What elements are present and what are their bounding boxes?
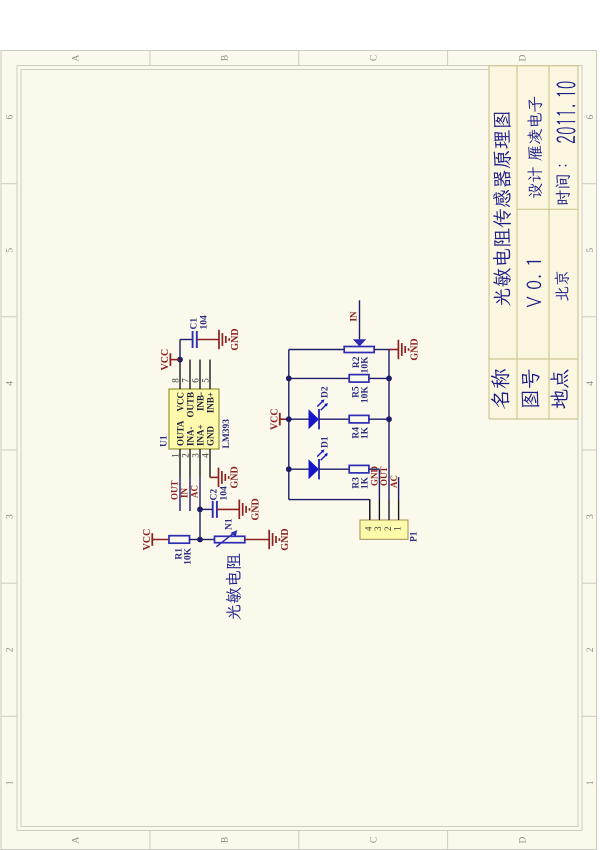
junction rail/D1: [286, 466, 292, 472]
ground (U1 pin4): [210, 466, 241, 488]
R2 wiper arrow: [353, 339, 366, 346]
wire pin8 to C1: [180, 339, 193, 359]
svg-text:VCC: VCC: [160, 348, 171, 370]
U1 pin names: [175, 392, 215, 446]
wire R4 to OUT row: [369, 418, 389, 420]
designer 设计 雁凌电子: [527, 96, 542, 197]
wire R3 to GND row: [369, 468, 380, 470]
svg-text:D1: D1: [321, 436, 331, 448]
title block: 图号 row: [522, 369, 540, 407]
grid row letters: [72, 54, 529, 843]
junction rail/R5: [286, 375, 292, 381]
location 北京: [555, 271, 569, 300]
title block table: [489, 65, 578, 419]
svg-text:7: 7: [181, 377, 191, 382]
wire R2 to OUT row: [374, 348, 389, 350]
svg-text:4: 4: [6, 380, 16, 385]
svg-text:GND: GND: [409, 338, 420, 360]
svg-text:5: 5: [201, 377, 211, 382]
svg-text:1K: 1K: [361, 426, 371, 439]
title block: 地点 row: [550, 369, 568, 408]
wire anode D1: [289, 468, 309, 470]
wire AC to C2: [200, 508, 213, 510]
grid column ticks: [1, 183, 597, 716]
label 光敏电阻: [226, 553, 241, 619]
U1 left pins 1-4: [180, 449, 210, 477]
LED D2: [309, 399, 328, 429]
svg-text:4: 4: [201, 452, 211, 457]
svg-text:D2: D2: [321, 386, 331, 398]
svg-text:GND: GND: [280, 528, 291, 550]
svg-text:3: 3: [6, 513, 16, 518]
ground (N1): [245, 528, 291, 550]
svg-text:1: 1: [171, 453, 181, 458]
svg-text:6: 6: [6, 114, 16, 119]
svg-text:GND: GND: [230, 466, 241, 488]
svg-text:INB-: INB-: [195, 392, 205, 411]
junction pin8/VCC: [177, 356, 183, 362]
junction rail/D2: [286, 416, 292, 422]
svg-text:4: 4: [364, 525, 374, 530]
resistor R1: [169, 535, 190, 543]
svg-text:GND: GND: [250, 498, 261, 520]
VCC rail wire: [288, 349, 290, 499]
junction OUT/R4: [386, 416, 392, 422]
P1 pins: [370, 500, 399, 520]
time 时间：2011.10: [556, 81, 576, 204]
svg-text:10K: 10K: [361, 355, 371, 373]
resistor R4: [349, 415, 369, 423]
wire anode D2: [289, 418, 309, 420]
title: 光敏电阻传感器原理图: [493, 112, 511, 306]
wire pin1 OUT: [179, 477, 181, 511]
svg-text:OUT: OUT: [170, 480, 180, 500]
U1 right pins 8,7,6,5: [180, 359, 210, 388]
svg-text:GND: GND: [370, 465, 380, 486]
grid column numbers: [6, 114, 596, 785]
svg-text:IN: IN: [180, 487, 190, 498]
svg-text:GND: GND: [205, 425, 215, 446]
svg-text:OUT: OUT: [379, 466, 389, 486]
ground (C1): [197, 328, 241, 350]
svg-text:OUTA: OUTA: [175, 420, 185, 446]
svg-text:1: 1: [392, 526, 402, 531]
svg-text:C2: C2: [210, 488, 220, 500]
svg-text:5: 5: [6, 247, 16, 252]
junction R1/N1/AC node: [197, 536, 203, 542]
svg-text:B: B: [221, 836, 231, 842]
wire pin2 IN: [189, 477, 191, 511]
svg-text:2: 2: [586, 647, 596, 652]
svg-text:U1: U1: [160, 435, 170, 447]
GND row wire to P1 pin3: [378, 469, 380, 500]
capacitor C1: [193, 331, 197, 348]
svg-text:C: C: [369, 54, 379, 60]
OUT row wire: [388, 349, 390, 500]
svg-text:104: 104: [200, 315, 210, 330]
op-amp U1 LM393 body: [169, 389, 219, 449]
svg-text:C1: C1: [190, 317, 200, 329]
svg-text:LM393: LM393: [222, 418, 232, 448]
wire rail to R5: [289, 377, 349, 379]
svg-text:VCC: VCC: [270, 408, 281, 430]
svg-text:OUTB: OUTB: [185, 392, 195, 418]
wire R1 to node: [190, 538, 201, 540]
svg-text:A: A: [72, 836, 82, 843]
wire pin3 AC: [199, 477, 201, 539]
svg-text:5: 5: [586, 247, 596, 252]
wire cathode D2: [319, 418, 349, 420]
ground (R2): [389, 338, 420, 360]
svg-text:6: 6: [191, 377, 201, 382]
wire cathode D1: [319, 468, 349, 470]
resistor R5: [349, 374, 369, 382]
svg-text:INA+: INA+: [195, 424, 205, 446]
U1 pin numbers: [171, 377, 211, 457]
svg-text:AC: AC: [389, 475, 399, 488]
svg-text:2: 2: [6, 647, 16, 652]
svg-text:3: 3: [373, 525, 383, 530]
resistor R3: [349, 465, 369, 473]
svg-text:1: 1: [586, 780, 596, 785]
svg-text:B: B: [221, 54, 231, 60]
power port VCC (U1 pin8): [160, 348, 180, 370]
ground (C2): [217, 498, 261, 520]
svg-text:4: 4: [586, 380, 596, 385]
svg-text:P1: P1: [410, 531, 420, 542]
svg-text:8: 8: [171, 377, 181, 382]
version V 0. 1: [527, 260, 542, 307]
LED D1: [309, 449, 328, 479]
IN wire to wiper: [359, 300, 361, 339]
potentiometer R2 body: [344, 346, 374, 352]
svg-text:3: 3: [586, 513, 596, 518]
svg-text:6: 6: [586, 114, 596, 119]
svg-text:10K: 10K: [361, 385, 371, 403]
P1 pin numbers: [364, 525, 403, 530]
wire R5 to OUT row: [369, 377, 389, 379]
svg-text:10K: 10K: [183, 547, 193, 565]
svg-text:D: D: [518, 54, 528, 61]
photoresistor N1: [215, 530, 245, 547]
svg-text:3: 3: [191, 452, 201, 457]
svg-text:VCC: VCC: [175, 392, 185, 412]
AC row wire: [398, 477, 400, 500]
svg-text:104: 104: [220, 486, 230, 501]
power port VCC (LED rail): [270, 408, 289, 430]
svg-text:D: D: [518, 836, 528, 843]
svg-text:2: 2: [181, 453, 191, 458]
title block: 名称 row: [491, 369, 510, 409]
svg-text:GND: GND: [230, 328, 241, 350]
svg-text:INA-: INA-: [185, 426, 195, 446]
capacitor C2: [213, 500, 217, 517]
svg-text:2: 2: [383, 526, 393, 531]
wire rail to R2: [289, 348, 344, 350]
svg-text:AC: AC: [190, 485, 200, 498]
svg-text:VCC: VCC: [142, 528, 153, 550]
svg-text:1: 1: [6, 780, 16, 785]
svg-text:INB+: INB+: [205, 392, 215, 413]
svg-text:A: A: [72, 54, 82, 61]
grid row ticks: [150, 50, 448, 849]
svg-text:N1: N1: [225, 518, 235, 530]
connector P1 body: [360, 520, 408, 539]
junction OUT/R5: [386, 375, 392, 381]
wire rail to P1 pin4: [289, 499, 370, 520]
power port VCC (R1): [142, 528, 169, 550]
wire node to N1: [200, 538, 215, 540]
junction AC/C2: [197, 506, 203, 512]
svg-text:IN: IN: [349, 311, 359, 322]
svg-text:C: C: [369, 836, 379, 842]
